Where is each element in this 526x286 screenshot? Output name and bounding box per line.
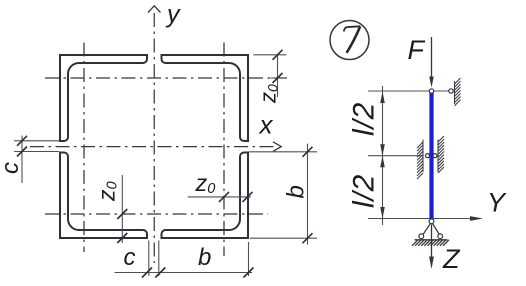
svg-text:y: y [165,1,181,29]
svg-text:F: F [408,35,426,65]
svg-text:z0: z0 [256,84,281,104]
svg-text:z0: z0 [195,170,216,197]
svg-text:x: x [258,110,274,140]
svg-text:Z: Z [442,244,461,274]
svg-text:c: c [124,244,136,271]
svg-text:l/2: l/2 [348,102,381,136]
svg-text:b: b [283,185,310,198]
svg-text:b: b [198,244,211,271]
svg-text:l/2: l/2 [348,174,381,208]
svg-text:Y: Y [487,188,507,218]
svg-text:z0: z0 [94,181,121,202]
svg-text:c: c [0,162,24,174]
